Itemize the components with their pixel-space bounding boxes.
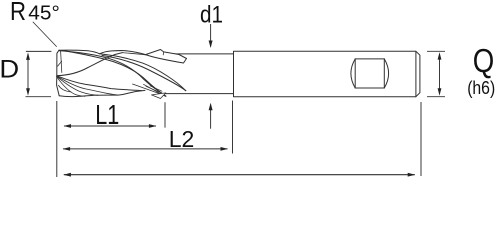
- svg-text:(h6): (h6): [467, 77, 495, 98]
- left extension line: [56, 101, 58, 177]
- weldon flat right arc: [384, 59, 388, 88]
- helix band B line b: [57, 76, 118, 95]
- weldon flat right edge: [383, 59, 385, 88]
- left face facet line: [58, 61, 62, 66]
- chevron inner step line: [162, 52, 165, 55]
- svg-text:L2: L2: [169, 126, 195, 152]
- Q dimension top tick: [427, 50, 445, 52]
- Q dimension arrow line: [439, 54, 441, 94]
- flute length extension line: [164, 102, 166, 127]
- Q dimension bottom tick: [427, 96, 445, 98]
- weldon flat top line: [355, 58, 384, 60]
- helix band A edge 2: [63, 51, 167, 97]
- neck bottom line: [163, 93, 234, 95]
- Q arrowhead down: [438, 88, 442, 96]
- runout margin hatch 1: [146, 86, 159, 92]
- L1 dimension line: [64, 125, 156, 127]
- flute top silhouette: [59, 50, 146, 54]
- L2 dimension line: [63, 148, 228, 150]
- overall length dimension line: [64, 174, 415, 176]
- shank outline: [234, 51, 420, 96]
- svg-text:R: R: [10, 0, 26, 26]
- runout margin hatch 2: [150, 86, 162, 91]
- Q arrowhead up: [438, 52, 442, 60]
- D arrowhead up: [26, 52, 30, 60]
- left face tooth pocket: [58, 85, 71, 92]
- helix band B line c: [57, 76, 98, 95]
- flute face lens margin to chevron tip: [123, 53, 146, 55]
- runout descending margin line 2: [144, 84, 166, 96]
- overall length right arrowhead: [408, 173, 416, 177]
- right extension line: [420, 102, 422, 176]
- weldon flat left edge: [354, 59, 356, 88]
- flute runout chevron above neck: [146, 50, 187, 64]
- d1 bottom arrow line: [210, 105, 212, 129]
- D dimension top tick: [26, 50, 52, 52]
- helix band B line d: [57, 77, 85, 97]
- d1 bottom arrowhead: [209, 103, 213, 111]
- helix band C edge 1 from top cusp: [100, 54, 186, 91]
- left face inner edge: [59, 50, 62, 72]
- weldon flat left arc: [351, 59, 355, 88]
- L2 left arrowhead: [63, 147, 71, 151]
- L2 right arrowhead: [221, 147, 229, 151]
- leader line for R45 corner callout: [33, 22, 57, 47]
- svg-text:L1: L1: [95, 99, 119, 130]
- svg-text:Q: Q: [473, 42, 495, 79]
- shank end chamfer line: [415, 51, 417, 96]
- helix band A edge 1 from corner: [60, 51, 164, 94]
- d1 top arrow line: [210, 24, 212, 47]
- flute face lens lower edge ascending from hub: [57, 53, 123, 76]
- flute bottom silhouette: [59, 90, 145, 96]
- neck length extension line: [232, 101, 234, 154]
- svg-text:45°: 45°: [28, 1, 60, 24]
- helix band B line a shallow valley line: [57, 76, 142, 91]
- helix band C edge 2: [102, 55, 186, 90]
- D dimension arrow line: [27, 54, 29, 94]
- L1 right arrowhead: [149, 124, 157, 128]
- end mill left face outline: [57, 50, 60, 96]
- d1 top arrowhead: [209, 41, 213, 49]
- neck top line: [160, 53, 234, 55]
- svg-text:d1: d1: [200, 1, 223, 28]
- flute runout notch below neck: [152, 93, 166, 99]
- L1 left arrowhead: [64, 124, 72, 128]
- overall length left arrowhead: [63, 173, 71, 177]
- weldon flat bottom line: [355, 87, 384, 89]
- runout descending margin line 1: [133, 84, 164, 95]
- D arrowhead down: [26, 88, 30, 96]
- svg-text:D: D: [0, 55, 19, 83]
- D dimension bottom tick: [26, 96, 52, 98]
